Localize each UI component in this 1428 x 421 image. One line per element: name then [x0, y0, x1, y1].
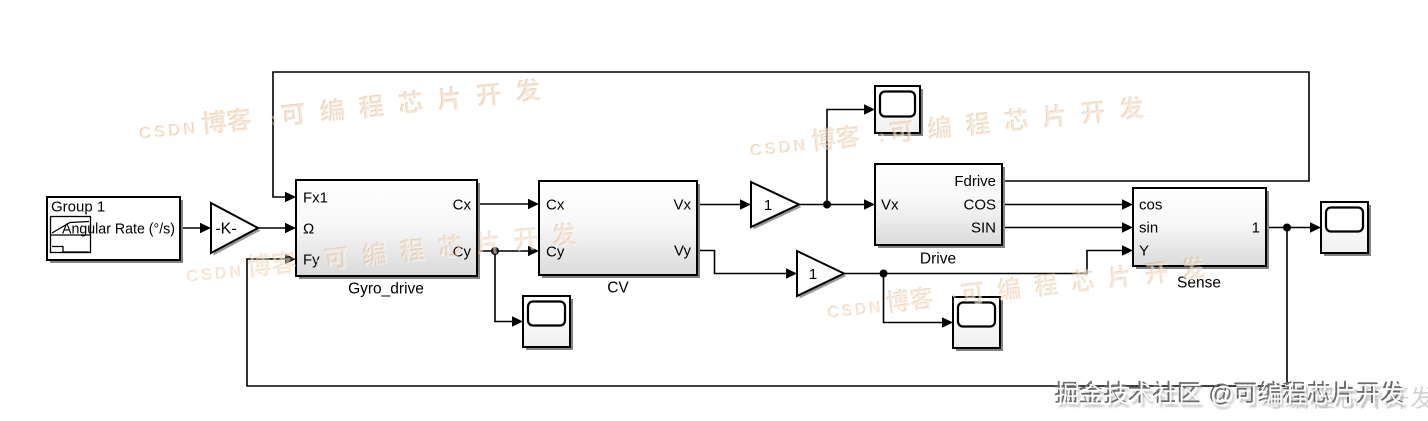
wire: junction down to scope C — [884, 274, 946, 323]
wire: junction up to scope A — [827, 110, 867, 205]
wire: gain -K- to port Omega — [258, 227, 288, 229]
arrowhead into Sense Y — [1122, 245, 1133, 255]
arrowhead into CV Cy — [528, 246, 539, 256]
wire: Drive SIN to Sense sin — [1002, 227, 1125, 229]
scope C — [953, 297, 1000, 348]
svg-text:Vx: Vx — [673, 197, 691, 214]
svg-text:1: 1 — [764, 197, 772, 214]
svg-text:Angular Rate (°/s): Angular Rate (°/s) — [62, 221, 175, 238]
subsystem Gyro_drive — [296, 180, 477, 276]
svg-text:cos: cos — [1139, 197, 1162, 214]
arrowhead into Sense sin — [1122, 222, 1133, 232]
svg-text:CV: CV — [607, 280, 629, 297]
watermark CSDN 1 — [137, 77, 542, 144]
wire: Cy junction down to scope B — [495, 251, 515, 322]
gain block 1a — [751, 182, 799, 227]
svg-text:1: 1 — [1252, 220, 1260, 237]
subsystem Sense — [1133, 188, 1266, 266]
svg-text:Y: Y — [1139, 243, 1149, 260]
juejin watermark gray echo — [1261, 386, 1428, 409]
wire: feedback Fdrive to Fx1 — [273, 72, 1309, 197]
scope C screen — [958, 303, 995, 327]
subsystem CV — [539, 181, 697, 275]
arrowhead into gain -K- — [200, 223, 211, 233]
arrowhead into scope D — [1310, 222, 1321, 232]
svg-text:-K-: -K- — [215, 221, 236, 238]
watermark CSDN 3 — [185, 221, 578, 287]
svg-text:sin: sin — [1139, 220, 1158, 237]
wire: Gyro Cy to CV Cy — [477, 250, 531, 252]
svg-text:COS: COS — [963, 197, 996, 214]
arrowhead into gain 1a — [740, 199, 751, 209]
svg-text:Vx: Vx — [881, 197, 899, 214]
arrowhead into scope A — [864, 104, 875, 114]
juejin watermark white emboss — [1057, 382, 1405, 409]
arrowhead into Omega — [285, 223, 296, 233]
scope A screen — [880, 92, 915, 117]
svg-text:Gyro_drive: Gyro_drive — [348, 281, 424, 298]
svg-text:Group 1: Group 1 — [51, 199, 105, 216]
arrowhead into gain 1b — [786, 268, 797, 278]
wire: Drive COS to Sense cos — [1002, 204, 1125, 206]
juejin watermark dark text — [1055, 380, 1403, 407]
junction after gain 1a — [823, 201, 831, 209]
arrowhead into Fy — [285, 254, 296, 264]
wire: signal builder to gain -K- — [180, 227, 203, 229]
arrowhead into CV Cx — [528, 199, 539, 209]
gain block -K- — [211, 203, 258, 253]
arrowhead into Sense cos — [1122, 199, 1133, 209]
gain block 1b — [797, 251, 844, 296]
watermark CSDN 4 — [826, 255, 1207, 323]
wire: Sense out to scope D — [1266, 227, 1313, 229]
subsystem Drive — [875, 164, 1002, 245]
svg-text:Cx: Cx — [546, 197, 565, 214]
svg-text:Fx1: Fx1 — [303, 190, 328, 207]
wire: feedback Sense out to Fy — [247, 228, 1287, 387]
wire: gain 1a to Drive Vx — [799, 204, 867, 206]
scope A — [875, 86, 920, 133]
svg-text:Drive: Drive — [920, 251, 956, 268]
scope B screen — [528, 302, 565, 326]
wire: gain 1b to Sense Y — [844, 251, 1125, 274]
juejin watermark soft shadow — [1058, 385, 1406, 412]
svg-text:Vy: Vy — [674, 243, 691, 260]
junction after gain 1b — [880, 270, 888, 278]
scope D screen — [1326, 208, 1363, 232]
svg-text:SIN: SIN — [971, 220, 996, 237]
svg-text:Ω: Ω — [303, 221, 314, 238]
scope D — [1321, 202, 1368, 253]
svg-text:Fdrive: Fdrive — [954, 173, 996, 190]
junction on Cy wire — [491, 247, 499, 255]
wire: CV Vy to gain 1b — [697, 251, 789, 274]
junction after Sense out — [1283, 224, 1291, 232]
wire: CV Vx to gain 1a — [697, 204, 743, 206]
arrowhead into scope B — [512, 316, 523, 326]
signal builder block Group 1 — [47, 197, 180, 260]
svg-text:@: @ — [1210, 382, 1235, 409]
svg-text:1: 1 — [809, 266, 817, 283]
signal builder waveform icon — [51, 217, 91, 253]
svg-text:Cx: Cx — [453, 197, 472, 214]
arrowhead into Drive Vx — [864, 199, 875, 209]
wire: Gyro Cx to CV Cx — [477, 203, 531, 205]
scope B — [523, 296, 570, 347]
arrowhead into Fx1 — [285, 192, 296, 202]
watermark CSDN 2 — [748, 95, 1145, 161]
arrowhead into scope C — [942, 317, 953, 327]
